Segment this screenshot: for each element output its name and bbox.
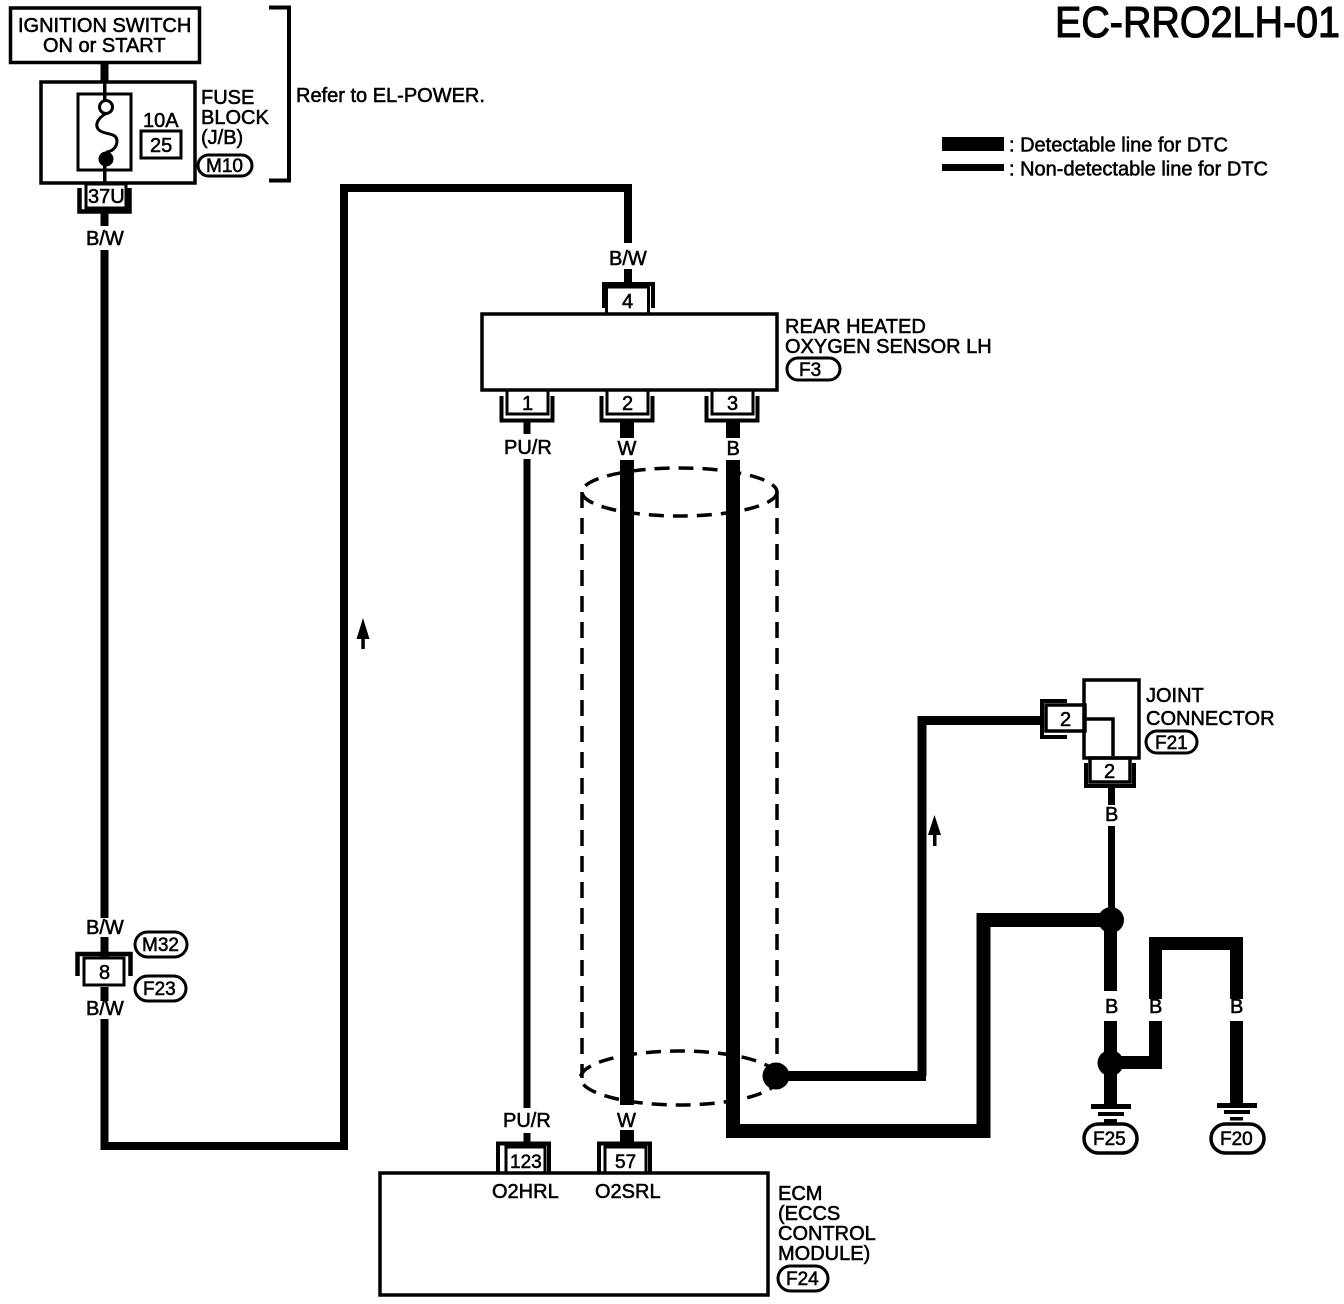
svg-text:2: 2 [622, 393, 633, 415]
svg-text:ECM: ECM [778, 1183, 822, 1205]
svg-text:ON or START: ON or START [43, 35, 166, 57]
svg-text:M32: M32 [142, 935, 179, 956]
svg-text:Refer to EL-POWER.: Refer to EL-POWER. [296, 85, 485, 107]
svg-text:2: 2 [1060, 709, 1071, 731]
svg-text:B/W: B/W [86, 228, 124, 250]
svg-text:37U: 37U [88, 186, 125, 208]
svg-text:B: B [1105, 804, 1118, 826]
svg-text:F24: F24 [786, 1269, 819, 1290]
svg-text:(J/B): (J/B) [201, 127, 243, 149]
svg-text:M10: M10 [206, 156, 243, 177]
svg-text:25: 25 [150, 135, 172, 157]
svg-text:10A: 10A [143, 110, 179, 132]
svg-text:4: 4 [622, 291, 633, 313]
svg-text:O2SRL: O2SRL [595, 1181, 661, 1203]
svg-text:FUSE: FUSE [201, 87, 254, 109]
svg-text:B: B [1105, 996, 1118, 1018]
svg-text:3: 3 [727, 393, 738, 415]
svg-text:B: B [1230, 996, 1243, 1018]
svg-text:57: 57 [615, 1152, 636, 1173]
svg-text:IGNITION SWITCH: IGNITION SWITCH [18, 15, 191, 37]
svg-text:REAR HEATED: REAR HEATED [785, 316, 926, 338]
svg-text:B/W: B/W [86, 917, 124, 939]
svg-text:CONTROL: CONTROL [778, 1223, 876, 1245]
svg-text:B/W: B/W [609, 248, 647, 270]
svg-text:EC-RRO2LH-01: EC-RRO2LH-01 [1055, 0, 1340, 47]
svg-text:W: W [618, 438, 637, 460]
svg-text:MODULE): MODULE) [778, 1243, 870, 1265]
svg-text:1: 1 [522, 393, 533, 415]
svg-text:PU/R: PU/R [504, 437, 552, 459]
svg-text:JOINT: JOINT [1146, 685, 1204, 707]
svg-text:123: 123 [510, 1152, 542, 1173]
svg-text:O2HRL: O2HRL [492, 1181, 559, 1203]
svg-text:CONNECTOR: CONNECTOR [1146, 708, 1275, 730]
svg-text:B: B [727, 438, 740, 460]
svg-text:(ECCS: (ECCS [778, 1203, 840, 1225]
svg-text:B: B [1149, 996, 1162, 1018]
svg-text:PU/R: PU/R [503, 1110, 551, 1132]
svg-text:OXYGEN SENSOR LH: OXYGEN SENSOR LH [785, 336, 992, 358]
svg-text:F3: F3 [799, 360, 821, 381]
svg-text:: Non-detectable line for DTC: : Non-detectable line for DTC [1009, 159, 1268, 181]
svg-text:F20: F20 [1220, 1129, 1253, 1150]
svg-text:: Detectable line for DTC: : Detectable line for DTC [1009, 135, 1228, 157]
svg-text:F25: F25 [1093, 1129, 1126, 1150]
svg-text:F21: F21 [1155, 733, 1188, 754]
svg-text:BLOCK: BLOCK [201, 107, 269, 129]
svg-text:W: W [617, 1110, 636, 1132]
svg-text:F23: F23 [143, 979, 176, 1000]
svg-text:B/W: B/W [86, 998, 124, 1020]
svg-text:8: 8 [99, 962, 110, 984]
svg-text:2: 2 [1104, 761, 1115, 783]
